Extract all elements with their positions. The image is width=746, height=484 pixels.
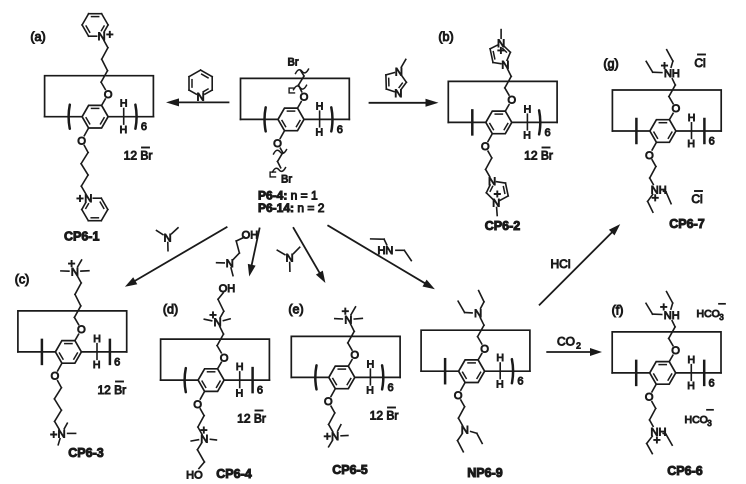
bond ring to O top CP6-5: [348, 360, 352, 366]
svg-text:(f): (f): [612, 304, 624, 318]
butyl chain top CP6-1: [101, 41, 108, 90]
bottom rim right CP6-5: [355, 376, 400, 378]
N+ top CP6-3: [69, 261, 79, 278]
pyridinium ring top CP6-1: [82, 14, 108, 37]
H bottom CP6-4: [236, 387, 244, 399]
NH+ bottom CP6-6: [651, 426, 667, 442]
left bracket CP6-5: [315, 365, 316, 389]
ethyl chain top CP6-2: [505, 69, 511, 95]
svg-text:CP6-2: CP6-2: [485, 219, 520, 233]
H top NP6-9: [496, 352, 504, 364]
N bottom NP6-9: [461, 425, 469, 437]
svg-text:CO: CO: [557, 335, 575, 349]
H top P6: [316, 100, 324, 112]
svg-text:HO: HO: [186, 470, 203, 482]
right bracket CP6-4: [251, 368, 254, 392]
bond ring to O top CP6-6: [669, 355, 673, 361]
bond ring to O bottom CP6-5: [331, 389, 335, 397]
left bracket CP6-6: [635, 361, 638, 385]
ethyl arm right top CP6-7: [667, 50, 673, 67]
left bracket NP6-9: [444, 359, 447, 383]
right bracket CP6-7: [703, 119, 706, 143]
ethyl chain top CP6-4: [217, 327, 223, 353]
svg-text:6: 6: [388, 382, 394, 394]
N3 top CP6-2: [501, 59, 509, 71]
macrocycle box CP6-2: [448, 81, 557, 122]
bond ring to O bottom CP6-4: [200, 391, 204, 399]
imidazolium ring bottom CP6-2: [486, 182, 508, 201]
trimethylamine reagent 2: [277, 247, 299, 271]
H bottom CP6-5: [366, 385, 374, 397]
H top CP6-4: [236, 361, 244, 373]
arrow to (a): [166, 98, 229, 106]
N1 bottom CP6-2: [488, 176, 496, 188]
macrocycle box CP6-6: [612, 332, 721, 373]
CH2 bond P6: [319, 111, 321, 127]
bottom rim left P6: [241, 118, 279, 120]
Cl- top CP6-7: [694, 55, 705, 71]
N+ bottom CP6-4: [200, 428, 208, 446]
macrocycle box CP6-4: [161, 339, 270, 380]
svg-text:6: 6: [141, 121, 147, 133]
arrow to (d): [248, 229, 260, 277]
ethyl chain bottom NP6-9: [458, 400, 464, 425]
O top CP6-6: [671, 345, 680, 357]
bond ring to O bottom NP6-9: [461, 383, 465, 391]
bottom rim left CP6-5: [291, 376, 329, 378]
svg-text:HCO: HCO: [685, 414, 708, 426]
name NP6-9: [467, 466, 502, 480]
svg-text:NH: NH: [664, 68, 680, 80]
ethyl arm right bottom NP6-9: [471, 432, 483, 444]
svg-text:(e): (e): [288, 303, 303, 317]
bond ring to O bottom CP6-3: [58, 363, 62, 371]
methyl right top CP6-5: [354, 317, 362, 320]
methyl left top CP6-3: [61, 270, 69, 272]
Br bottom P6: [281, 174, 292, 186]
bottom rim right CP6-7: [676, 130, 721, 132]
NH+ bottom CP6-7: [651, 185, 667, 201]
bond ring to O top CP6-4: [218, 362, 222, 368]
CH2 bond CP6-6: [690, 365, 692, 381]
ethyl chain bottom CP6-4: [198, 409, 204, 434]
svg-text:CP6-1: CP6-1: [64, 230, 99, 244]
methylimidazole reagent methyl: [401, 59, 406, 67]
ethyl arm left bottom NP6-9: [458, 434, 464, 452]
svg-text:N: N: [226, 258, 234, 270]
N+ bottom CP6-5: [325, 431, 339, 443]
O bottom NP6-9: [454, 390, 463, 402]
svg-text:6: 6: [517, 376, 523, 388]
svg-text:6: 6: [337, 124, 343, 136]
svg-text:N: N: [58, 428, 66, 440]
bond ring to O bottom CP6-6: [652, 384, 656, 392]
svg-text:H: H: [93, 359, 101, 371]
butyl chain bottom CP6-1: [81, 146, 88, 194]
svg-text:N: N: [501, 59, 509, 71]
bottom rim right NP6-9: [485, 370, 530, 372]
name CP6-3: [68, 446, 103, 460]
bottom rim right CP6-2: [512, 121, 557, 123]
H top CP6-2: [524, 103, 532, 115]
benzene ring P6: [278, 108, 304, 131]
subscript 6 CP6-6: [708, 377, 714, 389]
methyl left top CP6-5: [335, 318, 343, 320]
methylimidazole reagent ring: [386, 73, 407, 92]
svg-text:H: H: [496, 378, 504, 390]
name CP6-2: [485, 219, 520, 233]
squiggle bot1 P6: [274, 150, 287, 154]
CO2 label: [557, 335, 581, 351]
bromoalkyl chain top P6: [299, 71, 305, 92]
bottom rim left CP6-2: [448, 121, 486, 123]
pyridinium ring bottom CP6-1: [82, 198, 108, 221]
name CP6-7: [669, 217, 704, 231]
svg-text:P6-14: n = 2: P6-14: n = 2: [258, 201, 325, 215]
CH2 bond NP6-9: [499, 363, 501, 379]
CH2 bond CP6-1: [123, 109, 125, 125]
right bracket NP6-9: [512, 359, 513, 383]
benzene ring CP6-5: [329, 366, 355, 389]
methyl upright bottom CP6-5: [338, 425, 341, 431]
12 Br- CP6-4: [237, 411, 266, 426]
bond ring to O top CP6-1: [102, 99, 106, 105]
name CP6-6: [667, 464, 702, 478]
svg-text:H: H: [366, 385, 374, 397]
bond ring to O bottom CP6-1: [84, 128, 88, 136]
subscript 6 CP6-4: [257, 385, 263, 397]
plus top CP6-2: [498, 48, 503, 53]
left bracket CP6-3: [41, 340, 44, 364]
methyl right bottom CP6-3: [68, 432, 76, 434]
O top CP6-3: [77, 324, 86, 336]
12 Br- CP6-1: [124, 148, 153, 163]
svg-text:H: H: [120, 124, 128, 136]
svg-text:N: N: [71, 266, 79, 278]
methyl left top CP6-4: [204, 319, 211, 321]
label P6-4: [258, 189, 318, 203]
methyl downleft bottom CP6-5: [329, 441, 333, 447]
benzene ring CP6-6: [650, 362, 676, 385]
HCO3- top CP6-6: [697, 304, 726, 322]
label (c): [15, 273, 30, 287]
N-methyl top CP6-2: [500, 30, 502, 39]
butyl chain top CP6-3: [74, 276, 81, 325]
svg-text:6: 6: [709, 136, 715, 148]
N1 top CP6-2: [497, 38, 505, 50]
svg-text:NP6-9: NP6-9: [467, 466, 502, 480]
HCl label: [551, 257, 571, 271]
bond ring to O top CP6-7: [669, 113, 673, 119]
svg-text:12 Br: 12 Br: [237, 412, 266, 426]
H top CP6-7: [688, 112, 696, 124]
svg-text:H: H: [523, 130, 531, 142]
CH2 bond CP6-5: [369, 369, 371, 385]
left bracket CP6-2: [471, 110, 474, 134]
label P6-14: [258, 201, 325, 215]
O top CP6-4: [220, 352, 229, 364]
label (f): [612, 304, 624, 318]
bond ring to O top CP6-2: [505, 105, 509, 111]
squiggle top1 P6: [296, 69, 309, 73]
svg-text:HCO: HCO: [697, 308, 720, 320]
svg-text:(a): (a): [30, 30, 45, 44]
subscript 6 CP6-2: [545, 127, 551, 139]
HCO3- bottom CP6-6: [685, 410, 714, 428]
svg-text:CP6-4: CP6-4: [216, 467, 251, 481]
bottom rim right CP6-3: [81, 351, 126, 353]
O bottom CP6-3: [51, 371, 60, 383]
ethyl chain top CP6-5: [348, 324, 354, 350]
H bottom CP6-7: [687, 138, 695, 150]
label (d): [163, 303, 178, 317]
HO bottom CP6-4: [186, 470, 203, 482]
svg-text:3: 3: [707, 419, 712, 428]
O top CP6-5: [351, 350, 360, 362]
NH+ top CP6-6: [661, 304, 680, 322]
bottom rim left NP6-9: [421, 370, 459, 372]
left bracket CP6-7: [635, 119, 638, 143]
svg-text:N: N: [474, 308, 482, 320]
N+ top CP6-5: [343, 309, 353, 327]
svg-text:12 Br: 12 Br: [524, 149, 553, 163]
plus bottom CP6-2: [495, 191, 500, 196]
bottom rim left CP6-6: [612, 372, 650, 374]
O bottom CP6-5: [324, 396, 333, 408]
ethyl arm left top CP6-7: [646, 61, 662, 72]
ethyl chain top CP6-7: [669, 79, 675, 104]
pyridine reagent ring: [189, 70, 212, 94]
svg-text:OH: OH: [242, 229, 259, 241]
H top CP6-5: [367, 358, 375, 370]
N-methyl bottom CP6-2: [496, 208, 499, 216]
methyl upright top CP6-5: [351, 307, 356, 315]
svg-text:N: N: [344, 314, 352, 326]
arrow to (b): [370, 99, 439, 107]
ethyl chain top NP6-9: [478, 318, 484, 344]
svg-text:NH: NH: [664, 310, 680, 322]
label (b): [438, 30, 453, 44]
bottom rim left CP6-7: [612, 130, 650, 132]
ethyl arm right top CP6-6: [667, 292, 673, 310]
bottom rim left CP6-3: [18, 351, 56, 353]
H bottom CP6-1: [120, 124, 128, 136]
benzene ring CP6-4: [198, 369, 224, 392]
svg-text:Cl: Cl: [691, 192, 702, 206]
bond ring to O bottom CP6-2: [488, 134, 492, 142]
svg-text:H: H: [316, 127, 324, 139]
svg-text:12 Br: 12 Br: [370, 409, 399, 423]
benzene ring CP6-7: [650, 120, 676, 143]
methylimidazole reagent N1: [395, 66, 403, 78]
svg-text:Br: Br: [288, 57, 299, 69]
CH2 bond CP6-2: [526, 114, 528, 130]
N+ top CP6-4: [210, 312, 221, 329]
N top NP6-9: [474, 308, 482, 320]
svg-text:(g): (g): [603, 57, 618, 71]
svg-text:N: N: [84, 193, 92, 205]
svg-text:2: 2: [576, 341, 581, 351]
bond ring to O bottom P6: [280, 131, 284, 139]
left bracket CP6-4: [185, 368, 186, 392]
ethyl arm right bottom CP6-7: [664, 191, 672, 203]
label (g): [603, 57, 618, 71]
name CP6-5: [332, 463, 367, 477]
benzene ring NP6-9: [459, 360, 485, 383]
imidazolium ring top CP6-2: [490, 45, 510, 63]
bottom rim right CP6-6: [676, 372, 721, 374]
OH top CP6-4: [219, 283, 236, 295]
svg-text:CP6-5: CP6-5: [332, 463, 367, 477]
svg-text:6: 6: [114, 356, 120, 368]
trimethylamine reagent 1: [157, 228, 179, 251]
svg-text:CP6-7: CP6-7: [669, 217, 704, 231]
right bracket P6: [331, 107, 332, 131]
arrow to (e): [294, 228, 326, 283]
benzene ring CP6-3: [55, 341, 81, 364]
svg-text:H: H: [687, 138, 695, 150]
subscript 6 CP6-1: [141, 121, 147, 133]
svg-text:12 Br: 12 Br: [124, 149, 153, 163]
svg-text:HCl: HCl: [551, 257, 571, 271]
Br top P6: [288, 57, 299, 69]
butyl chain bottom CP6-3: [54, 381, 61, 429]
svg-text:6: 6: [708, 377, 714, 389]
ethyl chain bottom CP6-2: [486, 151, 492, 176]
right bracket CP6-3: [109, 340, 112, 364]
ethyl chain top CP6-6: [669, 321, 675, 346]
subscript 6 P6: [337, 124, 343, 136]
Cl- bottom CP6-7: [691, 191, 702, 206]
O bottom CP6-6: [645, 392, 654, 404]
methyl upright top CP6-3: [78, 260, 82, 267]
methyl right top CP6-3: [81, 270, 89, 272]
hydroxyethyl top CP6-4: [218, 293, 224, 318]
O top CP6-1: [104, 89, 113, 101]
methylimidazole reagent N3: [394, 88, 402, 100]
macrocycle box CP6-5: [291, 336, 400, 377]
12 Br- CP6-3: [97, 382, 126, 398]
svg-text:3: 3: [719, 313, 724, 322]
dimethylaminoethanol reagent: [217, 229, 259, 275]
repeat mark top P6: [289, 88, 294, 93]
diethylamine reagent: [371, 239, 412, 261]
left bracket P6: [265, 107, 266, 131]
H top CP6-3: [93, 333, 101, 345]
subscript 6 CP6-7: [709, 136, 715, 148]
svg-text:N: N: [394, 88, 402, 100]
bottom rim right CP6-4: [224, 379, 269, 381]
ethyl chain bottom CP6-5: [329, 406, 335, 431]
CH2 bond CP6-4: [239, 372, 241, 388]
svg-text:(c): (c): [15, 273, 30, 287]
O bottom CP6-2: [481, 141, 490, 153]
N+ bottom CP6-1: [77, 193, 92, 205]
NH+ top CP6-7: [662, 63, 680, 80]
H bottom CP6-2: [523, 130, 531, 142]
bond ring to O top NP6-9: [478, 354, 482, 360]
N3 bottom CP6-2: [492, 197, 500, 209]
benzene ring CP6-2: [486, 111, 512, 134]
H bottom CP6-6: [687, 380, 695, 392]
bond ring to O top CP6-3: [75, 334, 79, 340]
arrow HCl: [540, 224, 621, 305]
N+ bottom CP6-3: [51, 428, 66, 440]
squiggle bot2 P6: [273, 168, 286, 172]
label (a): [30, 30, 45, 44]
O top CP6-7: [672, 103, 681, 115]
svg-text:N: N: [488, 176, 496, 188]
12 Br- CP6-2: [524, 148, 553, 163]
name CP6-4: [216, 467, 251, 481]
CH2 bond CP6-7: [691, 123, 693, 139]
svg-text:(d): (d): [163, 303, 178, 317]
methyl down bottom CP6-3: [58, 439, 60, 445]
macrocycle box NP6-9: [421, 330, 530, 371]
macrocycle box CP6-3: [18, 311, 127, 352]
arrow CO2: [547, 348, 602, 356]
svg-text:6: 6: [545, 127, 551, 139]
ethyl arm left bottom CP6-7: [648, 194, 653, 212]
svg-text:CP6-6: CP6-6: [667, 464, 702, 478]
right bracket CP6-1: [135, 105, 136, 129]
12 Br- CP6-5: [370, 408, 399, 423]
svg-text:(b): (b): [438, 30, 453, 44]
pyridine reagent N: [197, 92, 205, 104]
ethyl arm left top NP6-9: [458, 301, 472, 313]
macrocycle box P6: [241, 78, 350, 119]
methyl right bottom CP6-4: [210, 438, 216, 441]
name CP6-1: [64, 230, 99, 244]
H top CP6-6: [688, 354, 696, 366]
label (e): [288, 303, 303, 317]
hydroxyethyl bottom CP6-4: [197, 443, 204, 469]
right bracket CP6-6: [703, 361, 706, 385]
ethyl arm right top NP6-9: [479, 291, 484, 309]
CH2 bond CP6-3: [96, 344, 98, 360]
N+ top CP6-1: [98, 31, 113, 43]
svg-text:CP6-3: CP6-3: [68, 446, 103, 460]
subscript 6 NP6-9: [517, 376, 523, 388]
O top NP6-9: [480, 343, 489, 355]
bond ring to O top P6: [298, 102, 302, 108]
ethyl arm left top CP6-6: [646, 303, 662, 314]
subscript 6 CP6-5: [388, 382, 394, 394]
arrow to (c): [125, 227, 227, 287]
subscript 6 CP6-3: [114, 356, 120, 368]
methyl left bottom CP6-4: [191, 440, 198, 441]
bottom rim right CP6-1: [108, 116, 153, 118]
svg-text:Cl: Cl: [694, 56, 705, 70]
repeat mark bottom P6: [270, 172, 275, 177]
O bottom CP6-7: [645, 150, 654, 162]
bottom rim left CP6-1: [45, 116, 83, 118]
svg-text:H: H: [236, 387, 244, 399]
svg-text:6: 6: [257, 385, 263, 397]
H bottom NP6-9: [496, 378, 504, 390]
bond ring to O bottom CP6-7: [652, 142, 656, 150]
right bracket CP6-5: [382, 365, 383, 389]
ethyl arm right bottom CP6-6: [663, 434, 672, 446]
benzene ring CP6-1: [82, 105, 108, 128]
bromoalkyl chain bottom P6: [278, 148, 283, 168]
methyl right bottom CP6-5: [341, 435, 348, 437]
bottom rim right P6: [304, 118, 349, 120]
methyl upright bottom CP6-3: [64, 423, 67, 428]
bottom rim left CP6-4: [161, 379, 199, 381]
squiggle top2 P6: [294, 85, 307, 89]
H bottom P6: [316, 127, 324, 139]
